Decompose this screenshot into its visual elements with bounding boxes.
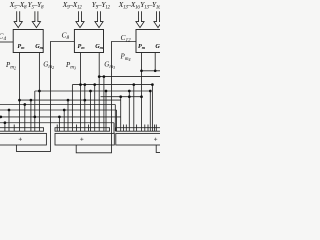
svg-text:Gm: Gm bbox=[35, 43, 43, 50]
svg-text:Pm: Pm bbox=[138, 43, 146, 50]
svg-text:Gm: Gm bbox=[155, 43, 160, 50]
svg-text:Gm: Gm bbox=[95, 43, 103, 50]
svg-text:Pm: Pm bbox=[17, 43, 25, 50]
svg-text:Pm: Pm bbox=[78, 43, 86, 50]
